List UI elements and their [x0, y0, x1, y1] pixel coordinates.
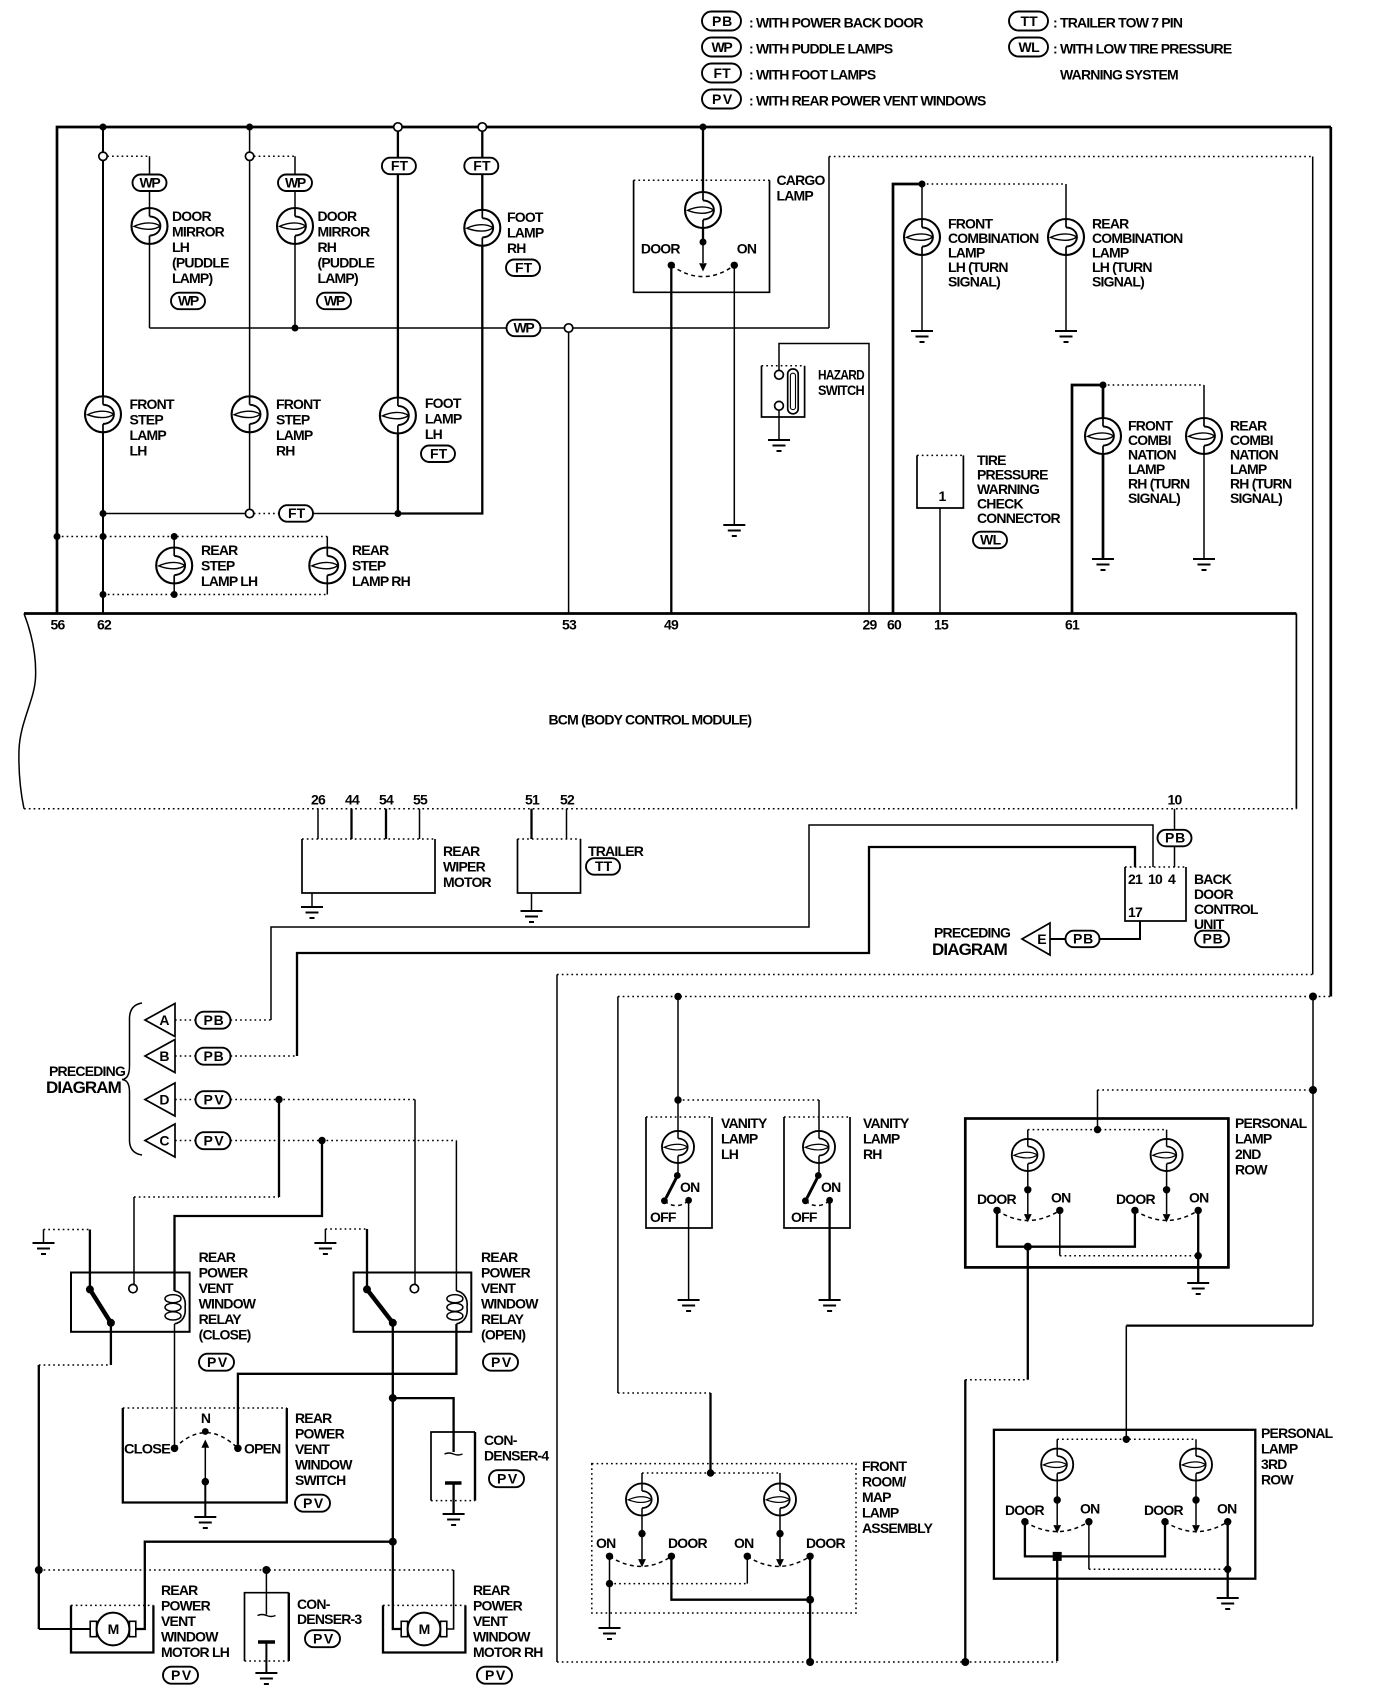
wire: 2nd row DOOR output to bottom bus — [1027, 1247, 1029, 1380]
svg-text:PB: PB — [204, 1012, 224, 1028]
svg-text:WARNING SYSTEM: WARNING SYSTEM — [1060, 67, 1178, 83]
wire: dotted branch to door mirror LH — [107, 155, 149, 157]
node: cargo ON contact — [731, 262, 738, 269]
coil: relay close — [165, 1291, 185, 1324]
svg-text:STEP: STEP — [276, 412, 310, 428]
BCM box left torn edge — [19, 614, 36, 809]
node: bus junction cargo feed — [700, 124, 707, 131]
rear power vent window motor RH box — [383, 1605, 465, 1652]
wire: branch to motor LH — [136, 1542, 393, 1629]
svg-text:61: 61 — [1065, 617, 1080, 633]
node: cargo DOOR contact — [668, 262, 675, 269]
wire: BCM pin 55 to rear wiper motor — [419, 809, 421, 839]
svg-text:10: 10 — [1148, 871, 1163, 887]
map LH dashed arc — [610, 1556, 672, 1566]
wire: WP net horizontal — [150, 327, 830, 329]
svg-text:ON: ON — [1080, 1501, 1100, 1517]
condenser-4 box — [431, 1432, 475, 1501]
wire: BCM pin 10 to back door control unit pin 4 — [1174, 809, 1176, 867]
svg-text:FT: FT — [288, 505, 306, 521]
svg-text:PV: PV — [204, 1132, 225, 1148]
wire: WP net riser and top dotted bus to right frame — [828, 157, 830, 329]
tag FT on FT net — [279, 505, 313, 522]
node: vanity RH ON contact — [826, 1197, 833, 1204]
svg-text:15: 15 — [934, 617, 949, 633]
svg-text:4: 4 — [1168, 871, 1176, 887]
svg-text:VENT: VENT — [481, 1280, 516, 1296]
capacitor: condenser-3 plates — [258, 1615, 276, 1617]
BCM box bottom dotted edge — [24, 808, 1296, 810]
node: switch OPEN contact — [234, 1445, 242, 1453]
node: vanity LH ON contact — [685, 1197, 692, 1204]
ground: relay close supply — [33, 1243, 55, 1254]
svg-text:FT: FT — [714, 65, 732, 81]
svg-text:SIGNAL): SIGNAL) — [948, 274, 1000, 290]
lamp: front room/map lamp RH — [764, 1483, 796, 1515]
personal lamp 2nd row box — [965, 1119, 1228, 1268]
lamp: personal lamp 3rd row RH — [1180, 1449, 1212, 1481]
svg-text:OPEN: OPEN — [244, 1441, 281, 1457]
lamp: front combination lamp RH — [1085, 418, 1121, 454]
switch arrow — [204, 1447, 206, 1482]
svg-text:TT: TT — [595, 858, 613, 874]
svg-text:ON: ON — [1189, 1190, 1209, 1206]
svg-text:WP: WP — [285, 174, 306, 190]
svg-text:SIGNAL): SIGNAL) — [1092, 274, 1144, 290]
node: junction lamp LH/bottom rail — [171, 591, 178, 598]
node: map RH ON contact — [744, 1553, 751, 1560]
tag PB on pin 10 wire — [1158, 830, 1192, 847]
svg-text:CLOSE: CLOSE — [124, 1441, 170, 1457]
node: junction 2nd row DOOR on bottom bus — [961, 1658, 969, 1666]
node: junction map lamp feed — [707, 1469, 714, 1476]
wire: triangle A to tag PB — [175, 1019, 196, 1021]
node: map LH switch pivot — [638, 1530, 645, 1537]
wire: rear step lamps top dotted rail — [57, 536, 327, 538]
personal lamp 3rd row box — [994, 1430, 1255, 1579]
tag WP on WP net — [507, 320, 541, 337]
svg-text:DOOR: DOOR — [641, 241, 680, 257]
wire: front combination LH lamp drop — [921, 184, 923, 331]
tag FT under foot lamp LH label — [421, 445, 455, 462]
wire: BCM pin 61 riser to RH combination lamps — [1072, 385, 1103, 614]
wire: back door unit pin 21 to preceding diagram B — [297, 847, 1135, 1056]
wire: FT net dotted segment — [254, 513, 279, 515]
rear power vent window relay (open) box — [354, 1273, 472, 1332]
svg-text:54: 54 — [379, 792, 394, 808]
svg-text:C: C — [159, 1133, 169, 1149]
svg-text:(PUDDLE: (PUDDLE — [172, 255, 229, 271]
svg-text:WL: WL — [980, 532, 1002, 548]
node: relay close normally-open pin — [129, 1284, 137, 1292]
wire: switch common to ground — [204, 1482, 206, 1517]
svg-text:REAR: REAR — [201, 542, 238, 558]
wire: 3rd row DOOR output to bottom bus — [1056, 1556, 1058, 1661]
wire: map ON link — [610, 1556, 748, 1583]
lamp: foot lamp RH — [464, 210, 500, 246]
svg-text:PV: PV — [171, 1667, 192, 1683]
node: junction map DOOR output — [806, 1596, 814, 1604]
ground: vanity lamp LH — [678, 1300, 700, 1311]
lamp: foot lamp LH — [380, 398, 416, 434]
3rd row LH switch arrow — [1056, 1500, 1058, 1525]
node: 3rd row RH switch pivot — [1192, 1496, 1199, 1503]
3rd row LH dashed arc — [1025, 1522, 1089, 1532]
svg-text:LH: LH — [172, 239, 190, 255]
svg-text:LAMP: LAMP — [1261, 1441, 1298, 1457]
svg-text:LAMP: LAMP — [130, 427, 167, 443]
svg-text:ON: ON — [821, 1179, 841, 1195]
lamp: personal lamp 3rd row LH — [1041, 1449, 1073, 1481]
svg-text:ON: ON — [596, 1535, 616, 1551]
node: open circle on bus for foot lamp LH — [394, 123, 402, 131]
wire: back door unit pin 10 to preceding diagram A — [271, 825, 1153, 1020]
svg-text:DOOR: DOOR — [1194, 886, 1233, 902]
svg-text:POWER: POWER — [481, 1265, 531, 1281]
node: 2nd row LH DOOR contact — [993, 1207, 1000, 1214]
legend tag TT — [1009, 12, 1048, 31]
connector triangle B — [145, 1040, 175, 1073]
wire: left feed vertical down to bottom bus — [556, 975, 558, 1663]
svg-text:: WITH PUDDLE LAMPS: : WITH PUDDLE LAMPS — [749, 41, 893, 57]
ground: relay open supply — [314, 1243, 336, 1254]
wire: foot lamp LH vertical — [397, 131, 399, 513]
rear power vent window motor LH box — [71, 1605, 153, 1652]
tag PV under relay open label — [483, 1354, 518, 1371]
tag FT under foot lamp RH label — [506, 259, 540, 276]
node: junction 2nd row DOOR output — [1024, 1243, 1032, 1251]
trailer connector box — [518, 839, 581, 893]
svg-text:MOTOR: MOTOR — [443, 874, 492, 890]
node: junction front combination LH — [919, 181, 926, 188]
svg-text:FT: FT — [515, 259, 533, 275]
svg-text:B: B — [159, 1048, 169, 1064]
wire: door mirror LH drop — [149, 156, 151, 328]
ground: rear wiper motor — [301, 907, 323, 918]
wire: relay close coil to switch CLOSE contact — [174, 1324, 176, 1445]
svg-text:ROW: ROW — [1235, 1162, 1268, 1178]
wire: front step lamp RH vertical from bus — [249, 127, 251, 509]
node: 3rd row LH switch pivot — [1054, 1496, 1061, 1503]
node: junction on net C — [318, 1137, 325, 1144]
svg-text:DOOR: DOOR — [318, 208, 357, 224]
rear power vent window relay (close) box — [71, 1273, 190, 1332]
wire: triangle B to tag PB — [175, 1055, 196, 1057]
ground: personal lamp 2nd row — [1187, 1283, 1209, 1294]
svg-text:DOOR: DOOR — [806, 1535, 845, 1551]
svg-text:(PUDDLE: (PUDDLE — [318, 255, 375, 271]
node: relay open normally-open pin — [410, 1284, 418, 1292]
relay close lever — [90, 1289, 111, 1322]
connector triangle C — [145, 1124, 175, 1157]
svg-text:BACK: BACK — [1194, 871, 1232, 887]
wire: map lamp feed vertical — [617, 997, 619, 1394]
wire: dotted link to rear combination LH — [922, 183, 1066, 185]
ground: vanity lamp RH — [819, 1300, 841, 1311]
svg-text:N: N — [201, 1410, 211, 1426]
coil: relay open — [447, 1291, 467, 1324]
lamp: personal lamp 2nd row LH — [1012, 1139, 1044, 1171]
node: switch common — [202, 1478, 210, 1486]
svg-text:62: 62 — [97, 617, 112, 633]
node: junction condenser-3 on motor bus — [262, 1566, 270, 1574]
lamp: front room/map lamp LH — [626, 1483, 658, 1515]
lamp: front combination lamp LH — [904, 219, 940, 255]
node: relay close common contact — [86, 1285, 94, 1293]
wire: BCM pin 62 vertical — [102, 127, 104, 614]
wire: dotted branch to vanity RH — [678, 1099, 819, 1101]
svg-text:LAMP LH: LAMP LH — [201, 573, 258, 589]
wire: dotted link between map lamps — [642, 1472, 780, 1474]
wire: cargo ON contact to ground — [733, 265, 735, 525]
lamp: rear step lamp LH — [156, 548, 192, 584]
wire: 2nd row DOOR link — [997, 1210, 1135, 1246]
svg-text:CONNECTOR: CONNECTOR — [977, 510, 1060, 526]
tag WP on door mirror RH wire — [278, 174, 312, 191]
svg-text:SWITCH: SWITCH — [818, 382, 865, 398]
svg-text:MIRROR: MIRROR — [318, 224, 371, 240]
node: junction lamp LH/top rail — [171, 533, 178, 540]
svg-text:PB: PB — [1203, 931, 1223, 947]
svg-text:FT: FT — [391, 158, 409, 174]
svg-text:PV: PV — [303, 1495, 324, 1511]
svg-text:PERSONAL: PERSONAL — [1261, 1425, 1334, 1441]
cargo switch dashed arc — [671, 265, 734, 276]
wire: ground feed to relay open common (dotted) — [324, 1229, 326, 1243]
svg-text:LAMP: LAMP — [1235, 1131, 1272, 1147]
node: vanity RH OFF contact — [802, 1197, 809, 1204]
svg-text:A: A — [159, 1012, 169, 1028]
wire: relay open coil to switch OPEN contact — [238, 1324, 457, 1445]
svg-text:TT: TT — [1021, 13, 1039, 29]
node: map RH DOOR contact — [806, 1553, 813, 1560]
wire: front combination RH lamp drop — [1102, 385, 1105, 559]
svg-text:52: 52 — [560, 792, 575, 808]
svg-text:SIGNAL): SIGNAL) — [1230, 490, 1282, 506]
wire: 3rd row lamp stubs — [1057, 1439, 1196, 1500]
wire: map lamp stubs — [642, 1473, 780, 1534]
legend tag WP — [702, 38, 741, 57]
svg-text:LAMP: LAMP — [721, 1131, 758, 1147]
wire: personal lamp 2nd row feed — [1312, 997, 1314, 1091]
tag PB under back door control unit label — [1195, 931, 1229, 948]
node: relay open common contact — [363, 1285, 371, 1293]
node: bus junction x103 — [100, 124, 107, 131]
svg-text:(OPEN): (OPEN) — [481, 1327, 525, 1343]
connector triangle E to preceding diagram — [1022, 923, 1050, 955]
wire: BCM pin 51 to trailer connector — [530, 809, 532, 839]
svg-text:DOOR: DOOR — [1144, 1502, 1183, 1518]
wire: map DOOR link — [671, 1556, 810, 1662]
svg-text:44: 44 — [345, 792, 360, 808]
tag PV under motor LH label — [163, 1667, 198, 1684]
svg-text:3RD: 3RD — [1261, 1456, 1287, 1472]
wire: rear step lamp LH stubs — [173, 537, 175, 595]
node: 2nd row LH switch pivot — [1024, 1186, 1031, 1193]
node: connector circle on front step RH wire — [245, 152, 253, 160]
svg-text:OFF: OFF — [791, 1209, 818, 1225]
svg-text:PV: PV — [491, 1354, 512, 1370]
node: map LH ON contact — [606, 1553, 613, 1560]
svg-text:LAMP: LAMP — [276, 427, 313, 443]
svg-text:: WITH LOW TIRE PRESSURE: : WITH LOW TIRE PRESSURE — [1053, 41, 1232, 57]
rear wiper motor box — [302, 839, 435, 893]
wire: tag PB to riser B (dotted) — [231, 1055, 298, 1057]
svg-text:PERSONAL: PERSONAL — [1235, 1115, 1308, 1131]
tag WP under door mirror RH label — [317, 293, 351, 310]
svg-text:WL: WL — [1019, 39, 1041, 55]
wire: cargo DOOR contact to BCM pin 49 — [670, 265, 672, 613]
tag PB on wire A — [196, 1012, 231, 1029]
wire: trailer ground stub — [531, 893, 533, 911]
svg-text:ON: ON — [680, 1179, 700, 1195]
svg-text:VENT: VENT — [473, 1613, 508, 1629]
lamp: front step lamp RH — [232, 396, 268, 432]
wire: dotted link between 2nd row lamps — [1028, 1129, 1167, 1131]
wire: rear combination RH lamp drop — [1203, 385, 1205, 559]
svg-text:49: 49 — [664, 617, 679, 633]
wire: rear step lamps bottom dotted rail — [103, 594, 327, 596]
rear power vent window switch box — [123, 1408, 287, 1503]
wire: net D drop to rear vent relay (open) contact pin — [414, 1100, 416, 1285]
lamp: front step lamp LH — [85, 396, 121, 432]
legend tag FT — [702, 64, 741, 83]
wire: rear wiper motor ground stub — [311, 893, 313, 907]
svg-text:ROW: ROW — [1261, 1472, 1294, 1488]
hazard rocker symbol — [788, 369, 799, 414]
svg-text:PB: PB — [1165, 830, 1185, 846]
svg-text:MIRROR: MIRROR — [172, 224, 225, 240]
capacitor: condenser-4 plates — [445, 1453, 463, 1455]
node: rear step rail junction on pin56 wire — [54, 533, 61, 540]
wire: net D branch to relay close contact pin — [278, 1100, 280, 1198]
lamp: rear step lamp RH — [309, 548, 345, 584]
wire: relay close output to motor bus — [110, 1323, 112, 1365]
svg-text:LAMP RH: LAMP RH — [352, 573, 411, 589]
svg-text:VANITY: VANITY — [863, 1115, 910, 1131]
BCM box top edge — [24, 612, 1296, 615]
svg-text:PV: PV — [207, 1354, 228, 1370]
svg-text:LAMP: LAMP — [862, 1505, 899, 1521]
vanity lamp LH box — [646, 1117, 712, 1228]
svg-text:FT: FT — [430, 445, 448, 461]
node: connector circle on WP net — [564, 324, 572, 332]
svg-text:PV: PV — [712, 91, 733, 107]
svg-text:HAZARD: HAZARD — [818, 367, 865, 383]
wire: cargo lamp to switch pivot — [702, 228, 704, 242]
node: junction personal lamp feed — [1309, 993, 1317, 1001]
wire: dotted link to rear combination RH — [1103, 384, 1204, 386]
wire: relay open output down to motor RH — [393, 1323, 401, 1629]
node: switch CLOSE contact — [171, 1445, 179, 1453]
wire: triangle C to tag PV — [175, 1140, 196, 1142]
wire: right outer frame from bus down to personal-lamp feed line — [1329, 127, 1332, 997]
svg-text:WINDOW: WINDOW — [199, 1296, 257, 1312]
svg-text:BCM (BODY CONTROL MODULE): BCM (BODY CONTROL MODULE) — [549, 712, 752, 728]
tag PV under motor RH label — [477, 1667, 512, 1684]
svg-text:WP: WP — [324, 293, 345, 309]
node: 3rd row RH DOOR contact — [1161, 1518, 1168, 1525]
svg-text:PRECEDING: PRECEDING — [49, 1063, 126, 1079]
svg-text:PB: PB — [1073, 931, 1093, 947]
svg-text:WP: WP — [178, 293, 199, 309]
wire: triangle D to tag PV — [175, 1099, 196, 1101]
node: junction to motor LH — [389, 1538, 397, 1546]
tag PV under condenser-4 label — [489, 1470, 524, 1487]
node: junction FT net on pin62 wire — [100, 510, 107, 517]
wire: main power bus with left drop to BCM pin 56 — [57, 127, 1331, 614]
node: junction on net D — [275, 1096, 282, 1103]
svg-text:RELAY: RELAY — [199, 1311, 243, 1327]
node: junction 2nd row ON ground — [1195, 1252, 1202, 1259]
wire: back door unit pin 17 to triangle E — [1050, 921, 1140, 939]
svg-text:PV: PV — [204, 1091, 225, 1107]
node: junction 3rd row lamp feed — [1123, 1436, 1130, 1443]
node: junction front combination RH — [1100, 382, 1107, 389]
node: 2nd row RH DOOR contact — [1131, 1207, 1138, 1214]
ground: front combination RH — [1092, 559, 1114, 570]
svg-text:STEP: STEP — [201, 558, 235, 574]
tag WL under check connector label — [973, 532, 1007, 549]
svg-text:PB: PB — [204, 1048, 224, 1064]
svg-text:VENT: VENT — [295, 1441, 330, 1457]
hazard switch box — [762, 366, 805, 417]
wire: right inner vertical from top dotted bus — [1312, 157, 1314, 975]
wire: condenser-3 to ground — [265, 1642, 267, 1673]
cargo switch arrow — [702, 242, 704, 263]
wire: condenser-4 to ground — [452, 1483, 454, 1514]
node: junction vanity feed — [674, 993, 681, 1000]
svg-text:PV: PV — [497, 1470, 518, 1486]
svg-text:60: 60 — [887, 617, 902, 633]
svg-text:MOTOR RH: MOTOR RH — [473, 1644, 543, 1660]
lamp: rear combination lamp LH — [1048, 219, 1084, 255]
lamp: rear combination lamp RH — [1186, 418, 1222, 454]
svg-text:WP: WP — [140, 174, 161, 190]
wire: vanity LH ON to ground — [688, 1200, 690, 1300]
svg-text:FOOT: FOOT — [425, 395, 462, 411]
node: vanity LH switch pivot — [674, 1172, 681, 1179]
node: 2nd row RH switch pivot — [1163, 1186, 1170, 1193]
svg-text:CON-: CON- — [297, 1596, 331, 1612]
node: 2nd row LH ON contact — [1056, 1207, 1063, 1214]
ground: front combination LH — [911, 331, 933, 342]
wire: rear combination LH lamp drop — [1065, 184, 1067, 331]
svg-text:STEP: STEP — [352, 558, 386, 574]
svg-text:21: 21 — [1128, 871, 1143, 887]
wire: 3rd row feed from split — [1312, 1090, 1314, 1326]
svg-text:PB: PB — [712, 13, 732, 29]
wire: BCM pin 54 to rear wiper motor — [385, 809, 387, 839]
svg-text:REAR: REAR — [473, 1582, 510, 1598]
wire: cargo lamp feed from bus — [702, 127, 704, 192]
svg-text:DOOR: DOOR — [668, 1535, 707, 1551]
wire: BCM pin 44 to rear wiper motor — [350, 809, 352, 839]
wire: net D dotted run to relay open pin — [231, 1099, 416, 1101]
vanity LH dashed arc — [664, 1201, 688, 1206]
node: hazard switch pin bottom — [775, 401, 784, 410]
svg-text:DOOR: DOOR — [172, 208, 211, 224]
wire: ground feed to relay close common (dotted) — [43, 1230, 45, 1244]
svg-text:FRONT: FRONT — [276, 396, 321, 412]
svg-text:WP: WP — [712, 39, 733, 55]
tag PV under condenser-3 label — [305, 1630, 340, 1647]
svg-text:LAMP: LAMP — [425, 411, 462, 427]
2nd row LH dashed arc — [997, 1210, 1060, 1220]
switch dashed arc — [175, 1433, 238, 1449]
node: junction relay close output on motor bus — [35, 1566, 43, 1574]
svg-text:FT: FT — [473, 158, 491, 174]
